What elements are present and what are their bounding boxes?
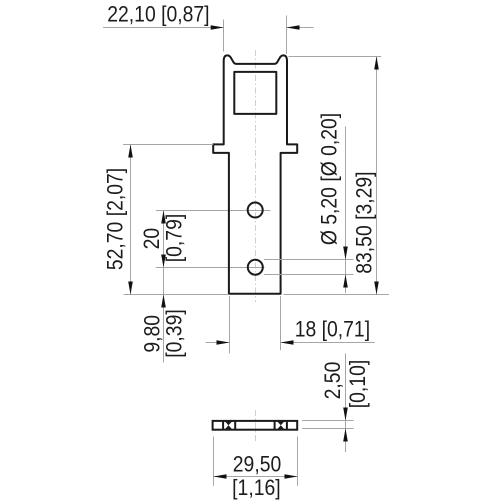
side view inner line 3	[274, 421, 276, 430]
dim 29,50: extension line right	[297, 437, 299, 486]
svg-text:[0,10]: [0,10]	[346, 360, 370, 408]
side view inner line 1	[222, 421, 224, 430]
svg-text:2,50: 2,50	[321, 362, 345, 400]
svg-text:29,50: 29,50	[233, 452, 281, 476]
dim 2,50: dimension line	[345, 354, 347, 453]
svg-text:52,70 [2,07]: 52,70 [2,07]	[103, 168, 127, 270]
dim dia 5,20: extension line top	[264, 259, 354, 261]
dim 29,50: dimension line	[214, 476, 298, 478]
dim 52,70: extension line top	[123, 144, 213, 146]
dim 22,10: dimension line right tail	[287, 27, 314, 29]
svg-text:9,80: 9,80	[140, 315, 164, 353]
dim 83,50: dimension line	[376, 57, 378, 295]
dim 18: dimension line left tail	[206, 342, 230, 344]
dim dia 5,20: extension line bottom	[264, 274, 354, 276]
dim dia 5,20: arrow top (points down)	[343, 247, 348, 260]
dim 29,50: arrow left	[214, 474, 227, 479]
centerline vertical side view	[255, 410, 257, 441]
svg-text:83,50 [3,29]: 83,50 [3,29]	[352, 171, 376, 273]
dim 18: extension line left	[229, 296, 231, 353]
dim 83,50: extension line bottom	[284, 294, 390, 296]
dim 22,10: extension line right	[286, 16, 288, 55]
dim 29,50: arrow right	[285, 474, 298, 479]
dim 22,10: dimension line left tail	[103, 27, 224, 29]
svg-text:[0,79]: [0,79]	[162, 214, 186, 262]
centerline upper hole horizontal	[156, 210, 271, 212]
dim 2,50: extension line bottom	[302, 428, 354, 430]
dim 2,50: arrow top (points down)	[343, 408, 348, 421]
dim 9,80: dimension line	[163, 268, 165, 363]
dim 2,50: extension line top	[302, 420, 354, 422]
dim 83,50: arrow top	[374, 57, 379, 70]
dim 52,70: dimension line	[130, 145, 132, 295]
svg-text:Ø 5,20 [Ø 0,20]: Ø 5,20 [Ø 0,20]	[317, 113, 341, 245]
dim 52,70: extension line bottom	[124, 294, 229, 296]
side view strip outline	[213, 421, 298, 430]
dim 18: arrow left (points right)	[217, 340, 230, 345]
svg-text:18 [0,71]: 18 [0,71]	[295, 317, 370, 341]
dim 18: dimension line right tail	[281, 342, 375, 344]
dim 9,80: arrow bottom (points up)	[161, 295, 166, 308]
dim 52,70: arrow bottom	[128, 282, 133, 295]
dim 22,10: extension line left	[223, 20, 225, 52]
svg-text:[1,16]: [1,16]	[232, 476, 280, 500]
centerline vertical front view	[255, 50, 257, 302]
dim 2,50: arrow bottom (points up)	[343, 429, 348, 442]
side view left ear mark	[225, 422, 232, 430]
side view inner line 4	[286, 421, 288, 430]
dim 20: dimension line	[163, 211, 165, 268]
dim 18: arrow right (points left)	[281, 340, 294, 345]
dim dia 5,20: arrow bottom (points up)	[343, 275, 348, 288]
dim 83,50: arrow bottom	[374, 282, 379, 295]
square hole in tab	[234, 72, 276, 114]
dim 18: extension line right	[280, 296, 282, 350]
svg-text:22,10 [0,87]: 22,10 [0,87]	[107, 2, 209, 26]
dim 22,10: arrow left	[211, 25, 224, 30]
dim 20: arrow top	[161, 211, 166, 224]
lower hole	[248, 260, 263, 275]
upper hole	[248, 203, 263, 218]
side view right ear mark	[277, 422, 284, 430]
dim 52,70: arrow top	[128, 145, 133, 158]
terminal body outline (front view)	[213, 55, 297, 293]
centerline lower hole horizontal	[156, 267, 265, 269]
svg-text:20: 20	[140, 228, 164, 250]
svg-text:[0,39]: [0,39]	[162, 309, 186, 357]
dim 22,10: arrow right	[287, 25, 300, 30]
side view inner line 2	[234, 421, 236, 430]
dim 83,50: extension line top	[289, 56, 382, 58]
dim 29,50: extension line left	[213, 437, 215, 486]
dim dia 5,20: dimension line	[345, 127, 347, 294]
dim 20: arrow bottom	[161, 255, 166, 268]
